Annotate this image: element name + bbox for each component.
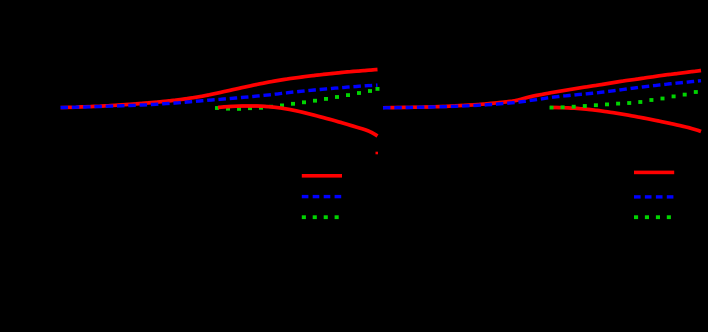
right plot upper red solid curve — [383, 71, 701, 108]
right legend blue dashed sample — [634, 195, 673, 198]
left legend green dotted sample — [302, 215, 339, 219]
right legend red solid sample — [634, 171, 674, 175]
right plot blue dashed curve — [383, 81, 701, 108]
left plot upper red solid curve — [61, 70, 378, 108]
right plot lower red solid curve — [550, 107, 701, 131]
right plot green dotted curve — [550, 90, 698, 109]
right legend green dotted sample — [634, 215, 671, 219]
left plot lower red solid curve — [218, 106, 378, 136]
left legend red solid sample — [302, 174, 342, 178]
left plot stray red dot — [376, 152, 379, 155]
left plot blue dashed curve — [61, 85, 378, 108]
left legend blue dashed sample — [302, 195, 341, 198]
left plot green dotted curve — [215, 87, 380, 111]
